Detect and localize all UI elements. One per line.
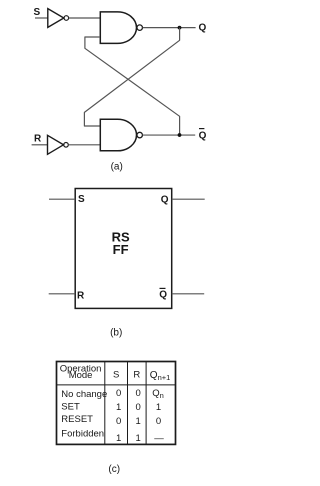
svg-text:Qn+1: Qn+1 [150,370,171,382]
svg-text:R: R [133,370,140,381]
svg-text:0: 0 [116,416,121,427]
svg-text:Qn: Qn [152,388,164,400]
svg-text:Mode: Mode [69,370,93,381]
svg-text:Forbidden: Forbidden [61,428,104,439]
svg-text:(a): (a) [111,162,123,173]
svg-text:SET: SET [61,402,80,413]
svg-text:(c): (c) [108,464,120,475]
svg-text:1: 1 [116,402,121,413]
svg-text:0: 0 [136,402,141,413]
svg-text:1: 1 [116,433,121,444]
svg-text:FF: FF [113,242,129,257]
svg-text:0: 0 [156,416,161,427]
svg-text:(b): (b) [110,327,122,338]
svg-text:Q: Q [199,130,207,141]
svg-text:RESET: RESET [61,414,93,425]
svg-text:1: 1 [136,416,141,427]
svg-text:Q: Q [161,194,169,205]
svg-text:Q: Q [159,290,167,301]
svg-text:—: — [154,433,164,444]
svg-text:No change: No change [61,389,107,400]
svg-text:0: 0 [116,388,121,399]
svg-text:R: R [34,134,42,145]
svg-text:S: S [113,370,119,381]
svg-text:S: S [78,194,85,205]
svg-text:S: S [34,7,41,18]
svg-text:1: 1 [156,402,161,413]
svg-text:1: 1 [136,433,141,444]
svg-text:0: 0 [136,388,141,399]
svg-text:Q: Q [199,22,207,33]
svg-text:R: R [77,290,85,301]
